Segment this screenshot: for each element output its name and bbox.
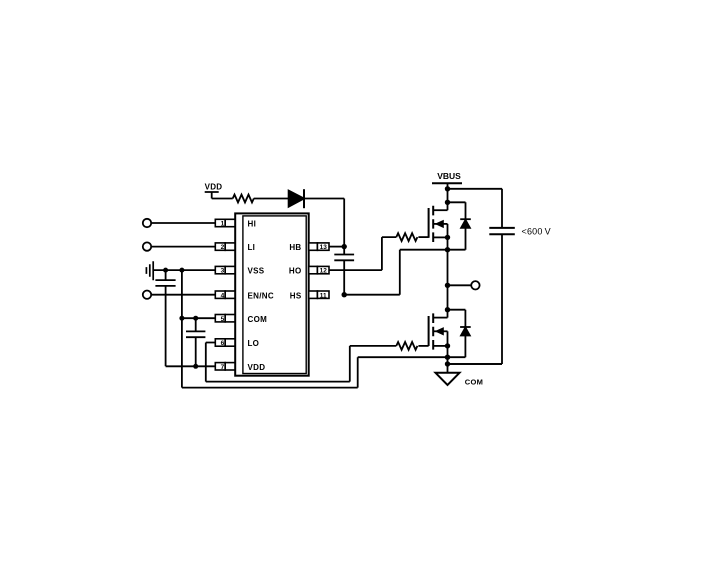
capacitor C3 bootstrap xyxy=(334,247,354,295)
ground symbol left (VSS) xyxy=(146,261,153,280)
svg-text:HS: HS xyxy=(290,291,302,300)
svg-text:COM: COM xyxy=(465,377,483,386)
pin 3 box xyxy=(215,266,235,273)
node dot Q1 source stub xyxy=(445,235,450,240)
node dot Q2 source / diode xyxy=(445,355,450,360)
wire bottom node to C4 leg xyxy=(448,363,503,365)
wire R1 to D1 xyxy=(254,198,289,200)
svg-text:LO: LO xyxy=(248,339,260,348)
svg-text:HO: HO xyxy=(289,267,302,276)
svg-text:<600 V: <600 V xyxy=(522,227,551,237)
svg-text:LI: LI xyxy=(248,243,256,252)
svg-text:3: 3 xyxy=(221,268,225,275)
wire COM sense route to Q2 source xyxy=(182,357,448,387)
node dot Q2 drain xyxy=(445,307,450,312)
wire output tap xyxy=(448,284,472,286)
input terminal EN xyxy=(143,291,151,299)
node dot VBUS tap xyxy=(445,186,450,191)
wire D1 to HB node xyxy=(304,199,344,247)
resistor R2 xyxy=(396,233,417,241)
pin 7 box xyxy=(215,363,235,370)
svg-text:5: 5 xyxy=(221,316,225,323)
pin 12 box xyxy=(309,266,329,273)
resistor R1 xyxy=(233,195,254,203)
node dot VDD-C2 xyxy=(193,364,198,369)
svg-text:4: 4 xyxy=(221,292,225,299)
wire LI input to pin 2 xyxy=(151,246,215,248)
wire HS route to switch node xyxy=(344,250,447,295)
node dot VSS-C1 xyxy=(163,268,168,273)
svg-text:VBUS: VBUS xyxy=(437,171,461,181)
wire VDD row to pin 7 xyxy=(166,365,216,367)
wire VBUS to Q1 drain xyxy=(447,183,449,210)
wire R2 to Q1 gate xyxy=(418,236,428,238)
node dot COM row left xyxy=(179,316,184,321)
wire R3 to Q2 gate xyxy=(418,345,428,347)
wire EN input to pin 4 xyxy=(151,294,215,296)
resistor R3 xyxy=(396,342,417,350)
svg-text:2: 2 xyxy=(221,244,225,251)
svg-text:11: 11 xyxy=(320,292,327,299)
svg-text:13: 13 xyxy=(320,244,328,251)
pin 6 box xyxy=(215,339,235,346)
node dot output xyxy=(445,283,450,288)
capacitor C2 xyxy=(186,318,205,366)
svg-text:HB: HB xyxy=(289,243,301,252)
wire LO route to gate resistor R3 xyxy=(206,343,396,382)
svg-text:12: 12 xyxy=(320,268,328,275)
diode D1 xyxy=(289,191,304,207)
node dot VSS branch xyxy=(179,268,184,273)
wire COM node to pin 5 xyxy=(182,317,215,319)
wire VSS ground to pin 3 xyxy=(153,269,215,271)
wire VDD to R1 xyxy=(212,198,233,200)
transistor Q1 xyxy=(429,206,448,242)
wire switch node vertical xyxy=(447,237,449,317)
wire HI input to pin 1 xyxy=(151,222,215,224)
svg-text:VDD: VDD xyxy=(248,363,266,372)
svg-text:COM: COM xyxy=(248,315,268,324)
node dot COM bottom xyxy=(445,361,450,366)
ground COM triangle xyxy=(436,373,460,385)
svg-text:HI: HI xyxy=(248,220,257,229)
svg-text:1: 1 xyxy=(221,221,225,228)
svg-text:EN/NC: EN/NC xyxy=(248,291,274,300)
wire HO route to gate resistor R2 xyxy=(329,237,396,270)
node dot HS xyxy=(342,292,347,297)
svg-text:6: 6 xyxy=(221,340,225,347)
node dot HB xyxy=(342,244,347,249)
svg-text:7: 7 xyxy=(221,364,225,371)
terminal VDD xyxy=(205,192,219,199)
wire C4 to COM node xyxy=(448,234,503,364)
output terminal switch node xyxy=(471,281,479,289)
wire VBUS to bus capacitor C4 xyxy=(448,189,503,228)
input terminal HI xyxy=(143,219,151,227)
diode D3 body bottom xyxy=(448,310,466,358)
terminal VBUS xyxy=(432,182,462,184)
IC U1 outer body xyxy=(235,213,309,375)
pin 13 box xyxy=(309,243,329,250)
node dot COM-C2 xyxy=(193,316,198,321)
pin 2 box xyxy=(215,243,235,250)
svg-text:VDD: VDD xyxy=(205,182,223,191)
capacitor C1 xyxy=(155,280,175,286)
input terminal LI xyxy=(143,242,151,250)
node dot Q2 source stub xyxy=(445,343,450,348)
node dot Q1 drain xyxy=(445,200,450,205)
capacitor C4 bus xyxy=(489,228,515,234)
diode D2 body top xyxy=(448,202,466,249)
pin 5 box xyxy=(215,315,235,322)
transistor Q2 xyxy=(429,313,448,349)
wire Q2 source to COM ground xyxy=(447,346,449,373)
pin 11 box xyxy=(309,291,329,298)
svg-text:VSS: VSS xyxy=(248,267,265,276)
node dot Q1 source / HS xyxy=(445,247,450,252)
wire C1 leg vertical xyxy=(165,270,167,366)
wire VSS-to-COM vertical xyxy=(181,270,183,388)
IC U1 inner body xyxy=(243,216,306,374)
pin 4 box xyxy=(215,291,235,298)
wire HB pin to node xyxy=(329,246,344,248)
pin 1 box xyxy=(215,219,235,226)
